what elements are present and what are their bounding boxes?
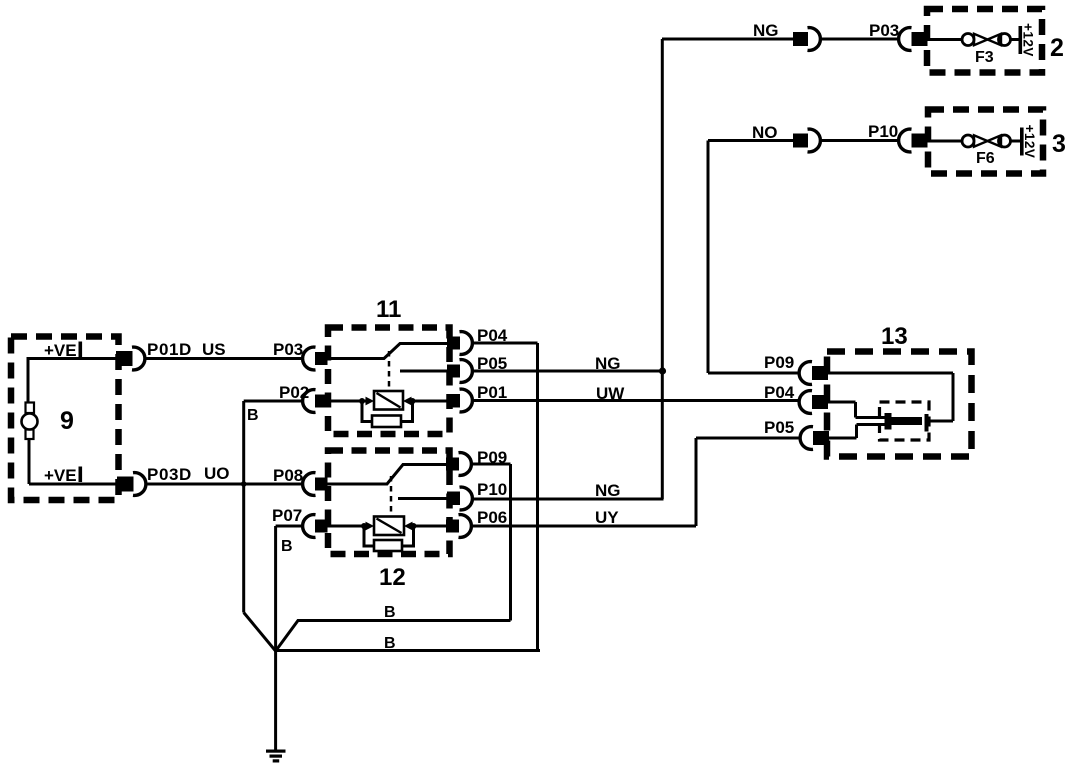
label F6: [976, 150, 995, 167]
svg-text:P02: P02: [279, 383, 309, 402]
wire box 9 bottom internal: [29, 438, 119, 484]
svg-text:+12V: +12V: [1022, 125, 1037, 159]
junction dot B crossing UO: [241, 481, 247, 487]
ground stem wire: [274, 651, 277, 750]
wire label UO: [204, 464, 230, 483]
label +VE top: [44, 341, 82, 360]
wire label B at P07: [281, 538, 293, 555]
wire B upper return: [276, 621, 511, 652]
junction dot right box 11: [410, 398, 416, 404]
svg-text:P08: P08: [273, 466, 303, 485]
resistor box 12: [374, 540, 402, 551]
relay actuate dashed line box 12: [390, 476, 393, 516]
wire P09 internal box 13: [828, 373, 953, 421]
ground symbol: [266, 750, 286, 763]
wire NO vertical trunk: [707, 141, 710, 374]
svg-text:B: B: [281, 538, 293, 555]
label 11: [376, 296, 401, 323]
wire UY from P06: [472, 438, 799, 526]
label P03 fuse connector: [869, 21, 899, 40]
wire label NG: [753, 21, 779, 40]
label P02 box 11: [279, 383, 309, 402]
svg-text:9: 9: [60, 407, 74, 435]
wire NG to fuse box 2: [820, 38, 898, 41]
relay contact box 12: [327, 465, 446, 485]
fuse F3 symbol: [962, 34, 1011, 46]
connector P09 box 12: [446, 453, 471, 476]
wire P10 stub box 12: [398, 497, 447, 500]
wire UW from P01: [473, 399, 799, 402]
connector P04 box 13: [799, 391, 828, 414]
svg-text:+12V: +12V: [1021, 23, 1036, 57]
svg-text:P09: P09: [764, 353, 794, 372]
wire P05 internal box 13: [829, 425, 886, 439]
label P07 box 12: [272, 506, 302, 525]
wire fuse F3 right: [1010, 38, 1020, 41]
connector P03D box 9 pin: [117, 473, 146, 496]
connector P03 at box 2: [899, 28, 928, 51]
svg-text:B: B: [384, 604, 396, 621]
label 2: [1050, 34, 1064, 62]
wire NG from P05: [473, 370, 663, 373]
label P04 box 11: [477, 326, 508, 345]
svg-text:NG: NG: [595, 481, 621, 500]
resistor branch box 11: [362, 401, 413, 422]
connector P09 box 13: [799, 362, 828, 385]
svg-text:P06: P06: [477, 508, 507, 527]
label P01 box 11: [477, 383, 507, 402]
junction dot left box 11: [359, 398, 365, 404]
wire NG from P10: [473, 498, 664, 501]
svg-text:US: US: [202, 340, 226, 359]
wire label UW: [596, 384, 625, 403]
svg-text:2: 2: [1050, 34, 1064, 62]
wire label US: [202, 340, 226, 359]
label P10 fuse connector: [868, 122, 898, 141]
svg-text:13: 13: [881, 323, 908, 350]
wire diagonal into ground node: [244, 613, 276, 652]
svg-text:F3: F3: [975, 49, 994, 66]
connector P10 box 12: [447, 487, 472, 510]
wire fuse F3 left: [927, 38, 962, 41]
wire label NG mid: [595, 354, 621, 373]
svg-text:P03: P03: [273, 340, 303, 359]
label P10 box 12: [477, 480, 507, 499]
resistor branch box 12: [364, 526, 414, 546]
svg-text:P07: P07: [272, 506, 302, 525]
label +12V box 2: [1021, 23, 1036, 57]
wire P05 stub box 11: [400, 370, 447, 373]
wire NG vertical trunk: [661, 39, 664, 499]
component box 3 dashed outline: [928, 110, 1043, 174]
wire P04 to ground trunk: [473, 343, 538, 651]
connector P01 box 11: [447, 389, 472, 412]
svg-text:+VE: +VE: [44, 466, 77, 485]
connector P02 box 11: [303, 390, 328, 413]
label 3: [1052, 130, 1066, 158]
connector P03 box 11: [303, 347, 328, 370]
label P06 box 12: [477, 508, 507, 527]
svg-text:P10: P10: [868, 122, 898, 141]
relay coil box 11: [374, 391, 403, 410]
junction node NG trunk: [659, 367, 666, 374]
arrow into coil left box 11: [366, 397, 375, 406]
junction dot right box 12: [411, 523, 417, 529]
label P05 box 11: [477, 354, 507, 373]
relay box 11 dashed outline: [328, 328, 450, 435]
wire NO to fuse box 3: [820, 139, 898, 142]
wire B from P02: [244, 401, 303, 613]
label 9: [60, 407, 74, 435]
svg-text:P03: P03: [869, 21, 899, 40]
wire coil feed right box 12: [410, 525, 446, 528]
connector P10 at box 3: [899, 129, 928, 152]
junction dot left box 12: [361, 523, 367, 529]
svg-text:P04: P04: [764, 383, 795, 402]
svg-text:P03D: P03D: [147, 465, 192, 484]
label P04 box 13: [764, 383, 795, 402]
wire label B lower: [384, 635, 396, 652]
wire B from P07: [276, 526, 303, 651]
label +12V box 3: [1022, 125, 1037, 159]
svg-text:NG: NG: [595, 354, 621, 373]
relay box 12 dashed outline: [328, 451, 450, 555]
wire coil feed left box 11: [327, 400, 367, 403]
fuse F6 symbol: [962, 135, 1011, 147]
connector P04 box 11: [447, 332, 472, 355]
component box 2 dashed outline: [927, 9, 1042, 73]
wire label B at P02: [247, 407, 259, 424]
wire coil feed right box 11: [409, 400, 447, 403]
label P05 box 13: [764, 418, 794, 437]
component box 13 dashed outline: [827, 352, 972, 457]
wire NO horizontal: [708, 139, 794, 142]
inline connector on NG wire: [793, 28, 820, 51]
label P08 box 12: [273, 466, 303, 485]
inline connector on NO wire: [793, 129, 820, 152]
+12V terminal bar box 3: [1020, 128, 1024, 156]
label P09 box 12: [477, 448, 507, 467]
connector P08 box 12: [303, 473, 328, 496]
label P01D: [147, 340, 192, 359]
svg-text:3: 3: [1052, 130, 1066, 158]
label 12: [379, 564, 406, 591]
resistor box 11: [372, 416, 401, 428]
label F3: [975, 49, 994, 66]
connector P05 box 13: [800, 427, 829, 450]
wire B lower return: [276, 649, 540, 652]
heater element box 13: [885, 413, 929, 432]
wire P09 to ground trunk: [472, 464, 511, 621]
label P03 box 11: [273, 340, 303, 359]
relay coil box 12: [374, 517, 404, 536]
label 13: [881, 323, 908, 350]
heater element dashed outline box 13: [880, 402, 930, 440]
wire fuse F6 left: [927, 140, 962, 143]
svg-text:NO: NO: [752, 123, 778, 142]
sender component in box 9: [22, 403, 38, 440]
label +VE bottom: [44, 466, 82, 485]
svg-text:P10: P10: [477, 480, 507, 499]
wire label UY: [595, 508, 619, 527]
svg-text:UY: UY: [595, 508, 619, 527]
svg-text:B: B: [384, 635, 396, 652]
connector P05 box 11: [447, 360, 472, 383]
svg-text:UW: UW: [596, 384, 625, 403]
wire label B upper: [384, 604, 396, 621]
svg-text:F6: F6: [976, 150, 995, 167]
svg-text:P05: P05: [764, 418, 794, 437]
arrow into coil right box 12: [404, 522, 413, 531]
label P09 box 13: [764, 353, 794, 372]
relay actuate dashed line box 11: [388, 351, 391, 391]
svg-text:NG: NG: [753, 21, 779, 40]
connector P01D box 9 pin: [116, 347, 145, 370]
svg-text:B: B: [247, 407, 259, 424]
wire US: [147, 357, 303, 360]
wire coil feed left box 12: [327, 525, 369, 528]
relay contact box 11: [327, 344, 447, 359]
svg-text:11: 11: [376, 296, 401, 323]
wire label NG lower: [595, 481, 621, 500]
connector P06 box 12: [446, 515, 471, 538]
svg-text:12: 12: [379, 564, 406, 591]
wire NO trunk to P09: [708, 372, 799, 375]
wire box 9 top internal: [28, 357, 118, 403]
svg-text:P01D: P01D: [147, 340, 192, 359]
wire P04 internal box 13: [828, 402, 886, 418]
connector P07 box 12: [303, 515, 328, 538]
wire fuse F6 right: [1010, 140, 1021, 143]
+12V terminal bar box 2: [1019, 26, 1023, 54]
wire NG top horizontal: [662, 38, 794, 41]
component box 9 dashed outline: [11, 337, 119, 501]
wire UO: [148, 483, 303, 486]
arrow into coil left box 12: [366, 522, 375, 531]
wire label NO: [752, 123, 778, 142]
svg-text:UO: UO: [204, 464, 230, 483]
label P03D: [147, 465, 192, 484]
arrow into coil right box 11: [403, 397, 412, 406]
